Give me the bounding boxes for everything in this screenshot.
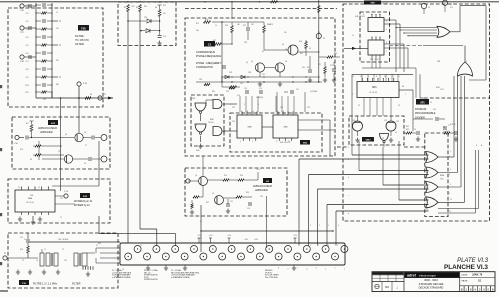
svg-text:2: 2 — [283, 111, 284, 113]
svg-text:Q3: Q3 — [285, 61, 287, 63]
svg-text:T4: T4 — [36, 260, 38, 262]
svg-text:C15: C15 — [330, 65, 333, 67]
svg-text:CR1: CR1 — [144, 17, 147, 19]
svg-text:INTERPOLATION: INTERPOLATION — [144, 278, 158, 281]
svg-text:CV2: CV2 — [384, 120, 387, 122]
svg-text:3: 3 — [386, 43, 387, 45]
svg-text:3k3: 3k3 — [56, 60, 59, 62]
svg-text:Q3: Q3 — [285, 49, 287, 51]
svg-text:C2: C2 — [358, 105, 360, 107]
svg-text:C6: C6 — [84, 132, 86, 134]
svg-text:9: 9 — [252, 141, 253, 143]
svg-text:AMPLIFICATEUR: AMPLIFICATEUR — [253, 185, 272, 188]
svg-text:22: 22 — [96, 245, 98, 247]
svg-text:1: 1 — [328, 225, 329, 227]
svg-text:C29: C29 — [25, 77, 28, 79]
svg-text:7L74: 7L74 — [440, 89, 444, 91]
svg-text:C22: C22 — [64, 260, 67, 262]
svg-text:R18: R18 — [20, 249, 23, 251]
svg-text:Q4: Q4 — [195, 175, 197, 177]
svg-text:1: 1 — [344, 269, 345, 271]
svg-text:ISO: ISO — [385, 286, 389, 289]
svg-text:R27: R27 — [307, 67, 310, 69]
svg-text:26: 26 — [200, 221, 202, 223]
svg-text:Q6: Q6 — [65, 134, 67, 136]
svg-text:Q1: Q1 — [246, 62, 248, 64]
svg-text:(1)790MΩ: (1)790MΩ — [310, 91, 318, 93]
svg-text:C13: C13 — [226, 91, 229, 93]
svg-text:CP3: CP3 — [232, 107, 235, 109]
svg-text:Q7: Q7 — [58, 151, 60, 153]
svg-text:R32: R32 — [406, 126, 409, 128]
svg-text:1: 1 — [450, 151, 451, 153]
svg-text:8: 8 — [376, 76, 377, 78]
svg-text:P18: P18 — [20, 61, 23, 63]
svg-text:R20: R20 — [205, 19, 208, 21]
svg-text:CV1: CV1 — [352, 120, 355, 122]
svg-text:R16: R16 — [225, 25, 228, 27]
svg-text:FILTRE 1,3 / 2,1 MHz: FILTRE 1,3 / 2,1 MHz — [33, 283, 58, 286]
svg-text:1: 1 — [195, 103, 196, 105]
svg-text:D1: D1 — [372, 138, 374, 140]
svg-text:AMPLIFIER: AMPLIFIER — [254, 189, 268, 192]
svg-text:C12: C12 — [216, 63, 219, 65]
svg-text:C17: C17 — [230, 201, 233, 203]
svg-text:7k: 7k — [56, 12, 58, 14]
svg-text:10: 10 — [309, 48, 311, 50]
svg-text:C30: C30 — [302, 67, 305, 69]
svg-text:R22: R22 — [318, 64, 321, 66]
svg-text:P4: P4 — [323, 38, 325, 40]
svg-text:et STANDARD DECADE: et STANDARD DECADE — [171, 276, 190, 279]
svg-text:0: 0 — [338, 225, 339, 227]
svg-text:4.7MΩ(2): 4.7MΩ(2) — [256, 97, 264, 99]
svg-text:8: 8 — [48, 187, 49, 189]
svg-text:C27: C27 — [25, 61, 28, 63]
svg-text:SN6: SN6 — [372, 87, 377, 89]
svg-text:1: 1 — [368, 76, 369, 78]
svg-text:CR4: CR4 — [248, 72, 251, 74]
svg-text:P 13: P 13 — [64, 191, 68, 193]
svg-text:PAGE :: PAGE : — [462, 280, 470, 283]
svg-text:P1: P1 — [4, 253, 6, 255]
svg-text:C13: C13 — [244, 88, 247, 90]
svg-text:74 LS 90: 74 LS 90 — [26, 202, 34, 204]
svg-text:1: 1 — [277, 111, 278, 113]
svg-text:SN11: SN11 — [440, 175, 444, 177]
svg-text:9: 9 — [390, 36, 391, 38]
svg-text:Q1: Q1 — [251, 61, 253, 63]
svg-text:23: 23 — [122, 269, 124, 271]
svg-text:1k: 1k — [215, 25, 217, 27]
svg-text:2: 2 — [319, 225, 320, 227]
svg-text:T3: T3 — [22, 260, 24, 262]
svg-text:R17: R17 — [213, 40, 216, 42]
svg-text:9: 9 — [426, 191, 427, 193]
svg-text:SN2: SN2 — [192, 98, 195, 100]
svg-text:CR5: CR5 — [199, 79, 202, 81]
svg-text:T1: T1 — [44, 249, 46, 251]
svg-text:STANDARD DECADE: STANDARD DECADE — [419, 283, 444, 286]
svg-text:electronique: electronique — [419, 273, 436, 277]
svg-text:C1: C1 — [208, 43, 212, 47]
svg-text:DIVISEUR par 10: DIVISEUR par 10 — [74, 200, 93, 203]
svg-text:SN10: SN10 — [365, 140, 371, 142]
svg-text:9: 9 — [244, 104, 245, 106]
svg-text:74LS00: 74LS00 — [208, 122, 214, 124]
svg-text:R26: R26 — [224, 175, 227, 177]
svg-text:6: 6 — [253, 111, 254, 113]
svg-text:R25: R25 — [300, 53, 303, 55]
svg-text:3: 3 — [449, 156, 450, 158]
svg-text:C14: C14 — [237, 95, 240, 97]
svg-text:CR2: CR2 — [244, 42, 247, 44]
svg-text:11: 11 — [449, 211, 451, 213]
svg-text:C16: C16 — [163, 36, 166, 38]
svg-text:2: 2 — [405, 94, 406, 96]
svg-text:C4: C4 — [414, 129, 416, 131]
svg-text:R34: R34 — [334, 53, 337, 55]
svg-text:SN8: SN8 — [437, 61, 440, 63]
svg-text:R40: R40 — [98, 243, 101, 245]
svg-text:D3: D3 — [395, 132, 397, 134]
svg-text:C211: C211 — [25, 92, 29, 94]
svg-text:CV2: CV2 — [396, 121, 399, 123]
svg-text:B: B — [476, 145, 477, 147]
svg-text:C28: C28 — [25, 69, 28, 71]
svg-text:R20: R20 — [132, 6, 135, 8]
svg-text:25: 25 — [430, 102, 432, 104]
svg-text:7: 7 — [386, 51, 387, 53]
svg-text:7400: 7400 — [440, 179, 444, 181]
svg-text:T2: T2 — [62, 249, 64, 251]
svg-text:R21: R21 — [243, 25, 246, 27]
svg-text:FILTRE: FILTRE — [75, 34, 84, 38]
svg-text:DIVIDER by 10: DIVIDER by 10 — [74, 205, 90, 207]
svg-text:B: B — [461, 287, 463, 291]
svg-text:22: 22 — [140, 245, 142, 247]
svg-text:C19: C19 — [260, 196, 263, 198]
svg-text:R30: R30 — [205, 85, 208, 87]
svg-text:CP5: CP5 — [307, 107, 310, 109]
svg-text:75 / 235 KHz: 75 / 235 KHz — [75, 39, 90, 42]
svg-text:C8: C8 — [84, 163, 86, 165]
svg-text:Q2: Q2 — [282, 44, 284, 46]
svg-text:DECADE STANDARD: DECADE STANDARD — [419, 286, 444, 289]
svg-text:R24: R24 — [163, 5, 166, 7]
svg-text:R4: R4 — [155, 7, 157, 9]
svg-text:C23: C23 — [25, 29, 28, 31]
svg-text:9: 9 — [450, 184, 451, 186]
svg-text:CR3: CR3 — [229, 72, 232, 74]
svg-text:560: 560 — [196, 30, 199, 32]
svg-text:C3: C3 — [398, 105, 400, 107]
svg-text:6: 6 — [449, 174, 450, 176]
svg-text:14: 14 — [18, 187, 20, 189]
svg-text:R9: R9 — [450, 4, 452, 6]
svg-text:10k: 10k — [284, 32, 287, 34]
svg-text:C24: C24 — [25, 37, 28, 39]
svg-text:CP: CP — [108, 159, 110, 161]
svg-text:R8: R8 — [402, 86, 404, 88]
svg-text:⊥: ⊥ — [396, 286, 399, 290]
svg-text:PLANCHE VI.3: PLANCHE VI.3 — [444, 264, 488, 271]
svg-text:14: 14 — [360, 76, 362, 78]
svg-text:P13: P13 — [60, 198, 63, 200]
svg-text:R27: R27 — [206, 202, 209, 204]
svg-text:S: S — [363, 14, 364, 16]
svg-text:12: 12 — [392, 76, 394, 78]
svg-text:6: 6 — [352, 94, 353, 96]
svg-text:d: d — [348, 213, 349, 215]
svg-text:C14: C14 — [259, 88, 262, 90]
svg-text:R2: R2 — [136, 7, 138, 9]
svg-text:R19: R19 — [299, 41, 302, 43]
svg-text:11: 11 — [398, 76, 400, 78]
svg-text:R33: R33 — [406, 129, 409, 131]
svg-text:C25: C25 — [25, 45, 28, 47]
svg-text:C26: C26 — [25, 53, 28, 55]
svg-text:7: 7 — [230, 104, 231, 106]
svg-text:C11: C11 — [262, 74, 265, 76]
svg-text:C5: C5 — [428, 7, 430, 9]
svg-text:et STANDARD DECADE: et STANDARD DECADE — [112, 276, 131, 279]
svg-text:11: 11 — [384, 76, 386, 78]
svg-text:7: 7 — [337, 245, 338, 247]
svg-text:9: 9 — [386, 29, 387, 31]
svg-text:5: 5 — [247, 111, 248, 113]
svg-text:1: 1 — [28, 187, 29, 189]
svg-text:12: 12 — [38, 187, 40, 189]
svg-text:PROGRAMMABLE: PROGRAMMABLE — [415, 112, 436, 115]
svg-text:SN7, 74L5/74: SN7, 74L5/74 — [370, 59, 380, 61]
svg-text:P2: P2 — [104, 94, 106, 96]
svg-text:C24: C24 — [433, 109, 436, 111]
svg-text:PHASE-FREQUENCE: PHASE-FREQUENCE — [196, 55, 221, 58]
svg-text:C3: C3 — [443, 127, 445, 129]
svg-text:adret: adret — [407, 274, 417, 278]
svg-text:4: 4 — [426, 172, 427, 174]
svg-text:SN4: SN4 — [30, 195, 33, 197]
svg-text:P6: P6 — [318, 32, 320, 34]
svg-text:C12: C12 — [296, 89, 299, 91]
svg-text:4: 4 — [450, 169, 451, 171]
svg-text:R18: R18 — [20, 149, 23, 151]
svg-text:3000 - 3010: 3000 - 3010 — [424, 278, 438, 282]
svg-text:R30: R30 — [212, 91, 215, 93]
svg-text:P 19: P 19 — [83, 83, 87, 85]
svg-text:SN8: SN8 — [436, 87, 440, 89]
svg-text:1k: 1k — [352, 35, 354, 37]
svg-text:DIVISEUR: DIVISEUR — [415, 108, 427, 111]
svg-text:1n: 1n — [24, 239, 26, 241]
svg-text:Q5: Q5 — [212, 193, 214, 195]
svg-text:3: 3 — [276, 141, 277, 143]
svg-text:SN2: SN2 — [210, 119, 214, 121]
svg-text:5: 5 — [240, 141, 241, 143]
svg-text:5: 5 — [390, 24, 391, 26]
svg-text:CP4: CP4 — [280, 107, 283, 109]
svg-text:F20: F20 — [81, 27, 86, 31]
svg-text:COMPARATOR: COMPARATOR — [196, 66, 213, 69]
svg-text:AMPLIFICATEUR: AMPLIFICATEUR — [38, 127, 57, 130]
svg-text:12: 12 — [426, 209, 428, 211]
svg-text:2: 2 — [325, 269, 326, 271]
svg-text:FILTER: FILTER — [75, 42, 84, 46]
svg-text:74 LS 90: 74 LS 90 — [369, 92, 378, 94]
svg-text:6: 6 — [328, 245, 329, 247]
svg-text:CP: CP — [108, 136, 110, 138]
svg-text:R28: R28 — [240, 175, 243, 177]
svg-text:5: 5 — [386, 21, 387, 23]
svg-text:3: 3 — [306, 269, 307, 271]
svg-text:11: 11 — [60, 217, 62, 219]
svg-text:10k: 10k — [163, 13, 166, 15]
svg-text:C16: C16 — [20, 237, 23, 239]
svg-text:12: 12 — [450, 199, 452, 201]
svg-text:9: 9 — [288, 269, 289, 271]
svg-text:R13: R13 — [196, 23, 199, 25]
svg-text:1k2: 1k2 — [56, 28, 59, 30]
svg-text:680: 680 — [56, 84, 59, 86]
svg-text:C210: C210 — [25, 85, 29, 87]
svg-text:1: 1 — [426, 154, 427, 156]
svg-text:R9: R9 — [30, 159, 32, 161]
svg-text:SP1: SP1 — [420, 103, 425, 105]
svg-text:P16: P16 — [20, 10, 23, 12]
svg-text:D2: D2 — [382, 138, 384, 140]
svg-text:R23: R23 — [270, 24, 273, 26]
svg-text:14: 14 — [352, 76, 354, 78]
svg-text:11: 11 — [288, 141, 290, 143]
svg-text:C7: C7 — [85, 145, 87, 147]
svg-text:b: b — [348, 177, 349, 179]
svg-text:COMPARATEUR: COMPARATEUR — [196, 51, 215, 54]
svg-text:Q2: Q2 — [262, 51, 264, 53]
svg-text:8: 8 — [278, 268, 279, 270]
svg-text:6: 6 — [316, 268, 317, 270]
svg-text:SN8, 74L5/74: SN8, 74L5/74 — [355, 16, 365, 18]
svg-text:C67: C67 — [251, 24, 254, 26]
svg-text:R17: R17 — [26, 123, 29, 125]
svg-text:3: 3 — [310, 225, 311, 227]
svg-text:JANV. 76: JANV. 76 — [472, 274, 483, 277]
svg-text:P17: P17 — [20, 32, 23, 34]
svg-text:FILTER: FILTER — [72, 283, 81, 286]
svg-text:C18: C18 — [247, 208, 250, 210]
svg-text:4: 4 — [241, 111, 242, 113]
svg-text:8: 8 — [466, 61, 467, 63]
svg-text:4: 4 — [310, 245, 311, 247]
svg-text:Plan TYPE 3046: Plan TYPE 3046 — [265, 277, 278, 279]
svg-text:C22: C22 — [25, 21, 28, 23]
svg-text:C30: C30 — [43, 99, 46, 101]
svg-text:P14: P14 — [14, 143, 17, 145]
svg-text:5: 5 — [335, 268, 336, 270]
svg-text:AMPLIFIER: AMPLIFIER — [39, 131, 53, 134]
svg-text:74L5/74: 74L5/74 — [382, 3, 388, 5]
svg-text:C21: C21 — [25, 13, 28, 15]
svg-text:R29: R29 — [246, 192, 249, 194]
svg-text:R3: R3 — [90, 94, 92, 96]
svg-text:7: 7 — [297, 268, 298, 270]
svg-text:5: 5 — [318, 245, 319, 247]
svg-text:BLIP*80: BLIP*80 — [450, 124, 456, 126]
svg-text:8: 8 — [258, 104, 259, 106]
svg-text:560: 560 — [237, 24, 240, 26]
svg-text:DIVIDER: DIVIDER — [415, 117, 425, 120]
svg-text:a: a — [348, 159, 349, 161]
svg-text:4.7k: 4.7k — [450, 7, 453, 9]
svg-text:2: 2 — [196, 125, 197, 127]
svg-text:DATE:: DATE: — [462, 274, 469, 277]
svg-text:R1: R1 — [124, 7, 126, 9]
svg-text:C10: C10 — [240, 83, 243, 85]
svg-text:R26: R26 — [144, 6, 147, 8]
svg-text:CP6: CP6 — [232, 121, 235, 123]
svg-text:8: 8 — [449, 193, 450, 195]
